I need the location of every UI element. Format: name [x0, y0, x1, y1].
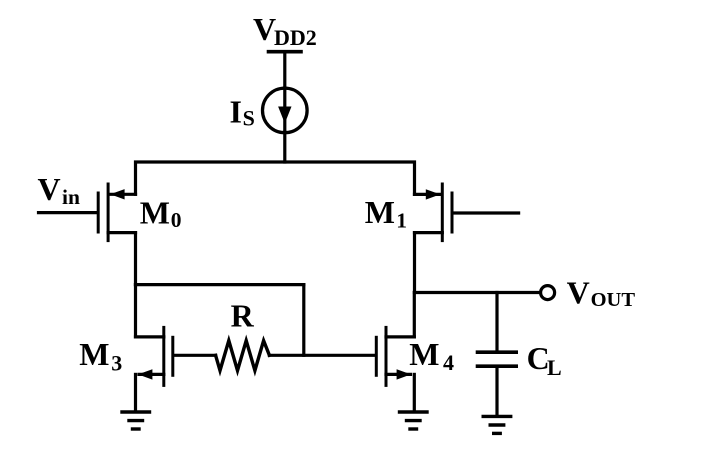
wire M0 drain down: [134, 233, 137, 285]
resistor R: [216, 341, 270, 371]
wire M3 gate to resistor: [175, 354, 216, 357]
terminal VOUT: [541, 286, 555, 300]
svg-text:CL: CL: [527, 340, 562, 380]
wire CL to ground: [495, 366, 498, 415]
capacitor CL: [478, 352, 517, 366]
ground under M4: [400, 412, 428, 429]
svg-text:VOUT: VOUT: [567, 275, 636, 311]
svg-text:Vin: Vin: [38, 171, 80, 209]
wire gate of M0 to Vin: [39, 211, 97, 214]
nmos M4: [376, 327, 414, 411]
wire cross tap down to gate line: [302, 285, 305, 356]
wire output node to CL: [495, 293, 498, 351]
wire M0 drain to M3 drain: [134, 285, 137, 337]
wire gate stub of M1: [454, 211, 519, 214]
wire resistor to M4 gate: [269, 354, 374, 357]
pmos M0: [98, 184, 135, 241]
wire M4 drain up to output node: [413, 293, 416, 337]
svg-text:M3: M3: [79, 336, 122, 376]
pmos M1: [415, 184, 453, 241]
svg-text:VDD2: VDD2: [253, 11, 317, 50]
svg-text:IS: IS: [230, 93, 255, 130]
svg-text:M0: M0: [140, 194, 182, 232]
svg-text:M4: M4: [409, 336, 454, 375]
nmos M3: [136, 327, 173, 411]
svg-text:R: R: [231, 298, 255, 334]
wire M1 drain down to output node: [413, 233, 416, 293]
wire top rail: [136, 162, 415, 194]
wire node to cross tap: [136, 283, 304, 286]
ground under CL: [483, 416, 511, 433]
wire output node to terminal: [415, 291, 540, 294]
svg-text:M1: M1: [365, 194, 407, 232]
wire VDD2 bar to current source: [283, 52, 286, 88]
wire current source to top rail: [283, 132, 286, 162]
current source IS: [263, 88, 308, 133]
ground under M3: [122, 412, 150, 429]
supply bar VDD2: [269, 50, 302, 54]
